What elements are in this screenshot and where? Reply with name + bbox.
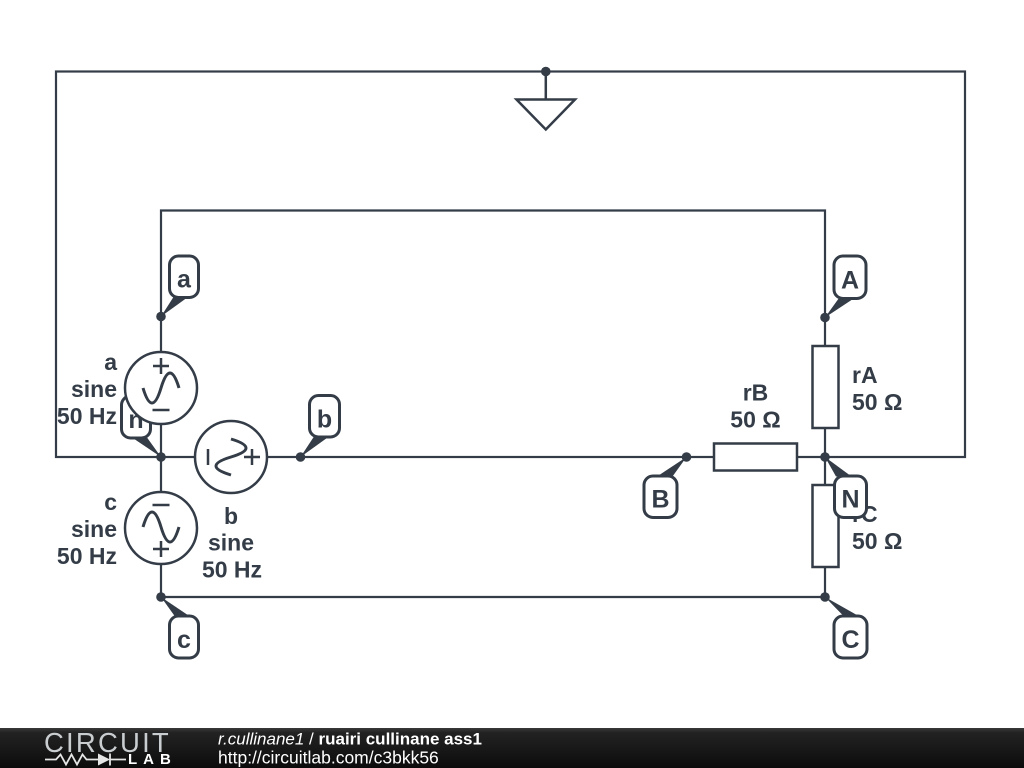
node N	[820, 452, 830, 462]
svg-text:LAB: LAB	[128, 751, 177, 768]
label c sine 50 Hz	[57, 489, 117, 569]
node a	[156, 312, 166, 322]
svg-text:50 Hz: 50 Hz	[57, 403, 117, 429]
node dots	[156, 67, 830, 602]
wire outer loop	[56, 72, 965, 458]
svg-text:sine: sine	[208, 530, 254, 556]
svg-text:rA: rA	[852, 362, 878, 388]
node A	[820, 313, 830, 323]
node B	[682, 452, 692, 462]
node A label tag	[825, 256, 866, 318]
resistor rA	[813, 346, 839, 428]
node a label tag	[161, 256, 199, 317]
svg-text:r.cullinane1 / ruairi cullinan: r.cullinane1 / ruairi cullinane ass1	[218, 730, 482, 749]
node c	[156, 592, 166, 602]
svg-text:N: N	[841, 486, 859, 514]
svg-text:a: a	[177, 266, 192, 294]
label rB 50 Ohm	[730, 380, 780, 433]
node B label tag	[644, 457, 687, 518]
svg-text:C: C	[841, 626, 859, 654]
svg-text:c: c	[177, 626, 191, 654]
ground	[517, 72, 576, 130]
svg-text:b: b	[224, 503, 238, 529]
node C label tag	[825, 597, 867, 658]
svg-text:50 Ω: 50 Ω	[730, 407, 780, 433]
svg-text:sine: sine	[71, 376, 117, 402]
wire right chain A-N-C	[824, 318, 826, 598]
logo diode	[98, 754, 110, 766]
label a sine 50 Hz	[57, 349, 117, 429]
svg-text:a: a	[104, 349, 117, 375]
svg-text:A: A	[841, 267, 859, 295]
node b label tag	[301, 396, 340, 458]
svg-text:rB: rB	[743, 380, 769, 406]
wire bottom c-C	[161, 596, 825, 598]
node N label tag	[825, 457, 867, 518]
voltage source b	[195, 421, 267, 493]
wire inner loop top	[161, 211, 825, 318]
label rA 50 Ohm	[852, 362, 902, 415]
svg-text:50 Hz: 50 Hz	[202, 557, 262, 583]
svg-text:http://circuitlab.com/c3bkk56: http://circuitlab.com/c3bkk56	[218, 748, 439, 768]
node b	[296, 452, 306, 462]
svg-text:B: B	[651, 486, 669, 514]
node c label tag	[161, 597, 199, 658]
ground node	[541, 67, 551, 77]
svg-text:c: c	[104, 489, 117, 515]
svg-text:50 Ω: 50 Ω	[852, 528, 902, 554]
svg-text:50 Ω: 50 Ω	[852, 389, 902, 415]
node C	[820, 592, 830, 602]
node n label tag	[122, 396, 162, 457]
svg-text:b: b	[317, 406, 332, 434]
wire left chain a-n-c	[160, 317, 162, 598]
label b sine 50 Hz	[202, 503, 262, 583]
logo resistor zigzag	[45, 755, 98, 765]
voltage source c	[125, 492, 197, 564]
label rC 50 Ohm	[852, 501, 902, 554]
node n	[156, 452, 166, 462]
voltage source a	[125, 352, 197, 424]
svg-text:sine: sine	[71, 516, 117, 542]
svg-text:50 Hz: 50 Hz	[57, 543, 117, 569]
resistor rB	[714, 444, 797, 471]
resistor rC	[813, 485, 839, 567]
